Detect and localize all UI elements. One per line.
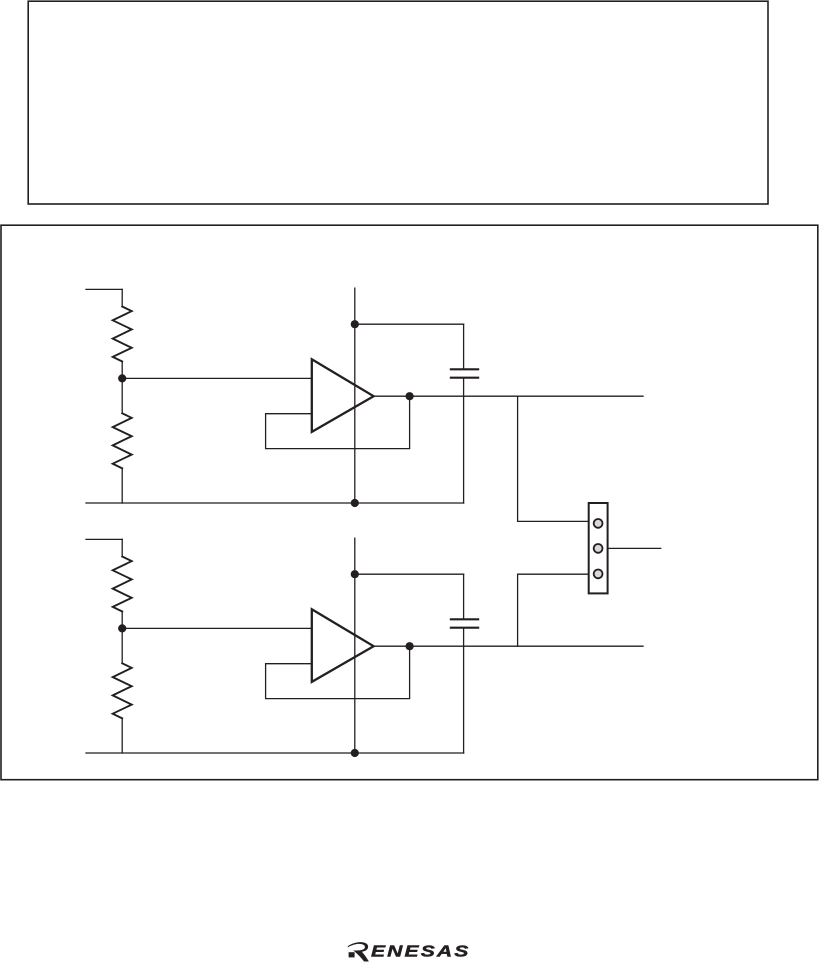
wire Vcc stub (lower)	[86, 538, 122, 540]
wire divider top (upper)	[121, 289, 123, 306]
wire node to R2 (upper)	[121, 378, 123, 413]
wire node to op-amp input (upper)	[122, 377, 311, 379]
node feedback junction (lower)	[406, 642, 414, 650]
wire ground rail (lower)	[86, 752, 464, 754]
wire ground rail (upper)	[86, 502, 464, 504]
wire R2 to ground rail (upper)	[121, 468, 123, 503]
node supply junction (lower)	[351, 570, 359, 578]
logo square dot	[349, 952, 355, 957]
wire supply to capacitor (upper)	[355, 323, 464, 325]
resistor R1 (upper divider top)	[113, 307, 132, 362]
resistor R4 (lower divider bottom)	[113, 663, 132, 718]
figure frame	[1, 225, 818, 780]
wire feedback loop (lower)	[266, 646, 410, 698]
wire capacitor top lead (upper)	[463, 324, 465, 368]
capacitor C1 (upper)	[451, 369, 478, 377]
wire node to R4 (lower)	[121, 628, 123, 663]
wire node to op-amp input (lower)	[122, 627, 311, 629]
wire output to connector pin 3	[518, 574, 589, 646]
top text frame	[28, 1, 768, 204]
wire capacitor bottom lead (lower)	[463, 629, 465, 753]
wire divider top (lower)	[121, 539, 123, 556]
wire connector pin 2 output	[608, 547, 661, 549]
logo R swoosh	[348, 942, 369, 961]
node ground junction (upper)	[351, 499, 359, 507]
wire supply to capacitor (lower)	[355, 573, 464, 575]
wire op-amp output (upper)	[374, 395, 643, 397]
connector pin 2	[594, 544, 603, 553]
wire R1 to node (upper)	[121, 362, 123, 379]
op-amp U1 (upper buffer)	[312, 359, 374, 432]
wire supply vertical (upper)	[354, 288, 356, 503]
node divider junction (upper)	[118, 374, 126, 382]
wire R4 to ground rail (lower)	[121, 718, 123, 753]
op-amp U2 (lower buffer)	[312, 609, 374, 682]
wire R3 to node (lower)	[121, 612, 123, 629]
capacitor C2 (lower)	[451, 619, 478, 627]
wire op-amp output (lower)	[374, 645, 643, 647]
resistor R3 (lower divider top)	[113, 557, 132, 612]
node supply junction (upper)	[351, 320, 359, 328]
connector pin 1	[594, 519, 603, 528]
connector J1 body	[589, 503, 608, 593]
wire capacitor bottom lead (upper)	[463, 379, 465, 503]
node feedback junction (upper)	[406, 392, 414, 400]
svg-text:ENESAS: ENESAS	[371, 942, 470, 960]
node ground junction (lower)	[351, 749, 359, 757]
wire output to connector pin 1	[518, 396, 589, 521]
resistor R2 (upper divider bottom)	[113, 413, 132, 468]
wire feedback loop (upper)	[266, 396, 410, 448]
connector pin 3	[594, 570, 603, 579]
wire Vcc stub (upper)	[86, 288, 122, 290]
wire capacitor top lead (lower)	[463, 574, 465, 618]
node divider junction (lower)	[118, 624, 126, 632]
wire supply vertical (lower)	[354, 538, 356, 753]
